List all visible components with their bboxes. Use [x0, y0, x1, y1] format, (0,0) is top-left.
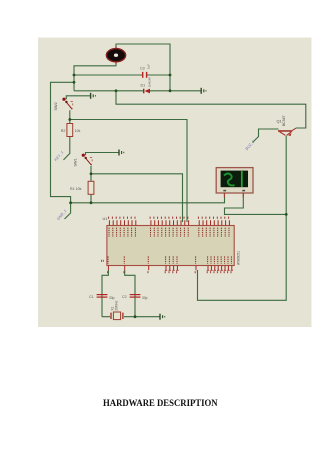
svg-text:BC547: BC547 — [282, 116, 286, 126]
microcontroller U1 body — [103, 217, 241, 266]
resistor R1 — [70, 181, 94, 194]
transistor Q1 — [277, 116, 297, 137]
U1 bottom pin name strips — [108, 256, 231, 263]
U1 top pin name strips — [109, 228, 229, 237]
ground symbol near SW2 — [91, 93, 96, 99]
wire Q1 base stub — [253, 129, 279, 143]
wire scope right pin route — [225, 193, 287, 214]
svg-text:C3: C3 — [140, 66, 145, 70]
buzzer BUZ1 — [106, 47, 125, 64]
ground symbol top middle — [201, 88, 206, 94]
U1 top pins group 1 — [109, 220, 135, 225]
ground symbol near SW1 — [119, 150, 124, 156]
schematic canvas background — [38, 38, 312, 328]
wire buzzer bottom to left vertical — [74, 62, 116, 91]
U1 top pins group 2 — [151, 220, 189, 225]
svg-text:U1: U1 — [103, 217, 108, 221]
svg-text:10k: 10k — [75, 129, 81, 133]
wire SW1 bottom junction — [90, 166, 92, 181]
wire Q1 emitter down to ground run — [198, 136, 287, 301]
svg-text:AT89C51: AT89C51 — [237, 251, 241, 265]
switch SW2 — [54, 98, 73, 111]
wire crystal line to ground — [102, 316, 160, 318]
svg-text:C1: C1 — [89, 295, 94, 299]
wire XTAL right with C2 — [125, 270, 135, 317]
svg-text:R1 10k: R1 10k — [70, 187, 82, 191]
wire XTAL left with C1 — [102, 270, 108, 317]
wire key line to chip pin — [70, 120, 187, 223]
wire left rail — [51, 82, 75, 219]
U1 top pins group 3 — [199, 220, 229, 225]
wire SW1 top to ground — [86, 153, 119, 156]
diode D1 — [141, 77, 152, 94]
svg-text:20MHz: 20MHz — [114, 300, 118, 311]
wire R1 bottom — [90, 194, 92, 203]
wire rst line to chip pin — [91, 174, 183, 222]
svg-text:33p: 33p — [109, 296, 115, 300]
wire SW2 top to ground — [66, 96, 90, 100]
capacitor C1 — [89, 294, 115, 300]
svg-text:SW1: SW1 — [74, 158, 78, 166]
capacitor C3 — [140, 64, 150, 78]
svg-text:1N4148: 1N4148 — [148, 77, 152, 88]
wire scope left line — [71, 193, 225, 203]
U1 bottom pin numbers — [107, 271, 231, 273]
ground symbol near crystal — [160, 314, 165, 320]
caption text — [103, 399, 218, 409]
switch SW1 — [74, 154, 93, 167]
U1 pin19 number speck — [101, 260, 104, 262]
wire top rail from buzzer to right drop — [116, 44, 170, 91]
wire C3 line — [74, 74, 170, 76]
U1 top pin numbers — [108, 217, 229, 219]
U1 unconnected pin crosses — [165, 269, 233, 271]
resistor R2 — [61, 124, 81, 137]
wire SW2 bottom junction — [69, 110, 71, 123]
wire D1 ground line — [74, 90, 201, 92]
wire branch to collector rail — [116, 91, 306, 128]
svg-text:R2: R2 — [61, 129, 66, 133]
svg-text:C2: C2 — [122, 295, 127, 299]
U1 bottom pins — [108, 266, 231, 271]
wire R2 bottom stub — [64, 137, 70, 160]
crystal X1 — [111, 300, 123, 320]
svg-text:D1: D1 — [141, 83, 146, 87]
oscilloscope display LCD1 — [216, 168, 253, 198]
svg-text:SW2: SW2 — [54, 102, 58, 110]
capacitor C2 — [122, 294, 148, 300]
svg-text:1uF: 1uF — [146, 64, 150, 69]
svg-text:Q1: Q1 — [277, 120, 282, 124]
svg-text:33p: 33p — [142, 296, 148, 300]
